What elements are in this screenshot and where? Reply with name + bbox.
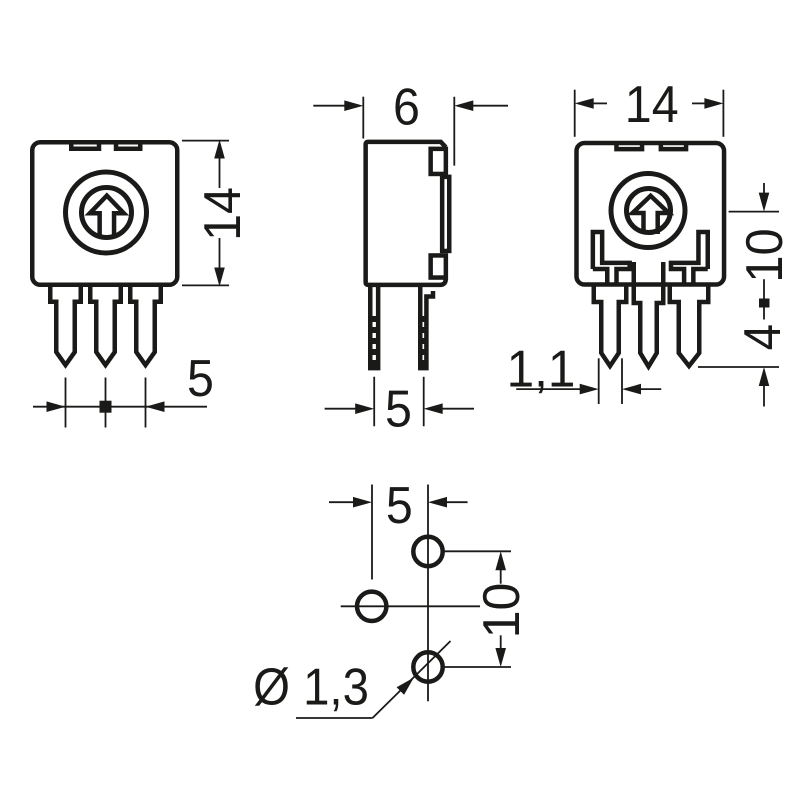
extension line bottom xyxy=(182,284,229,286)
svg-text:4: 4 xyxy=(734,324,791,350)
dimension tail above xyxy=(763,183,765,194)
dimension line left part xyxy=(516,388,581,390)
extension line top xyxy=(182,140,229,142)
dimension tail right xyxy=(692,102,706,104)
dimension line right part xyxy=(639,388,661,390)
pin 2 (front view) xyxy=(90,285,121,365)
arrow down xyxy=(214,268,225,287)
dimension tail left xyxy=(592,102,607,104)
side plate (side view) xyxy=(442,177,449,251)
extension line right xyxy=(453,97,455,166)
square terminator at pin2 xyxy=(100,401,112,413)
dimension line right part xyxy=(473,105,508,107)
top notch right (front view) xyxy=(116,141,140,149)
hole left xyxy=(357,592,386,621)
extension line left xyxy=(574,90,576,137)
rotor inner circle (front view) xyxy=(82,188,132,238)
svg-text:10: 10 xyxy=(736,228,793,282)
top notch left xyxy=(616,142,642,149)
vertical centerline xyxy=(427,485,429,702)
pin rear serrations xyxy=(421,316,426,368)
body front view xyxy=(32,142,177,285)
arrow pointing right xyxy=(580,384,599,395)
dimension line xyxy=(33,406,207,408)
pin 3 (right view) xyxy=(670,285,709,366)
pin rear (side view) xyxy=(420,286,433,368)
dimension line left part xyxy=(313,105,345,107)
arrow left-pointing at pin3 xyxy=(146,401,165,412)
extension line left xyxy=(598,358,600,404)
lower mounting tab (side view) xyxy=(431,255,446,277)
arrow pointing up xyxy=(495,551,506,570)
svg-text:14: 14 xyxy=(625,75,679,133)
leader horizontal segment xyxy=(296,717,373,719)
dimension line segments xyxy=(219,158,221,188)
dimension line left part xyxy=(329,501,355,503)
top notch right xyxy=(661,142,686,149)
horizontal centerline xyxy=(341,605,480,607)
svg-text:6: 6 xyxy=(393,78,420,136)
svg-text:5: 5 xyxy=(386,477,413,535)
arrow up xyxy=(214,140,225,159)
adjustment arrow xyxy=(633,196,669,234)
arrow pointing right xyxy=(704,98,723,109)
arrow pointing left xyxy=(575,98,594,109)
arrow right-pointing at pin1 xyxy=(47,401,66,412)
pin 3 (front view) xyxy=(130,285,161,365)
arrow pointing right xyxy=(355,403,374,414)
svg-text:Ø 1,3: Ø 1,3 xyxy=(253,659,369,716)
pin front serrations xyxy=(372,316,377,368)
hole top right xyxy=(413,537,442,566)
extension line pin1 xyxy=(65,378,67,428)
extension line right pin xyxy=(423,377,425,427)
rotor outer circle xyxy=(611,174,685,248)
svg-text:1,1: 1,1 xyxy=(507,339,576,397)
dimension line left part xyxy=(325,408,357,410)
svg-text:5: 5 xyxy=(187,350,214,408)
arrow pointing right xyxy=(344,100,363,111)
arrow pointing left xyxy=(622,384,641,395)
upper mounting tab (side view) xyxy=(431,149,446,174)
rotor inner circle xyxy=(627,189,671,233)
leader filled arrowhead xyxy=(397,678,414,695)
dimension tail below xyxy=(763,385,765,407)
extension line right xyxy=(621,358,623,404)
arrow pointing left xyxy=(454,100,473,111)
arrow pointing left xyxy=(428,497,447,508)
svg-text:5: 5 xyxy=(385,380,412,438)
dimension line segment xyxy=(763,279,765,298)
arrow pointing right xyxy=(353,497,372,508)
dimension line right part xyxy=(445,501,468,503)
extension line pin3 xyxy=(145,378,147,428)
extension line right xyxy=(722,90,724,137)
dimension line segment bottom xyxy=(500,635,502,650)
leader line through bottom hole xyxy=(373,641,451,718)
contact clip left xyxy=(593,232,630,286)
extension line pin2 xyxy=(105,378,107,428)
extension line top xyxy=(443,550,511,552)
top notch left (front view) xyxy=(71,141,99,149)
body front view right xyxy=(577,143,725,285)
dimension line segment xyxy=(763,308,765,320)
arrow pointing down xyxy=(759,193,770,212)
arrow pointing up xyxy=(759,367,770,386)
pin 2 middle (right view) xyxy=(634,262,664,367)
dimension line segment top xyxy=(500,568,502,584)
arrow pointing left xyxy=(424,403,443,414)
hole bottom right xyxy=(413,652,442,681)
arrow pointing down xyxy=(495,648,506,667)
square terminator xyxy=(759,299,770,308)
pin 1 (right view) xyxy=(594,285,627,366)
svg-text:10: 10 xyxy=(472,583,530,639)
extension line bottom xyxy=(443,666,511,668)
svg-text:14: 14 xyxy=(194,187,252,241)
contact clip right xyxy=(671,232,708,286)
pin 1 (front view) xyxy=(50,285,81,365)
extension line bottom xyxy=(698,366,779,368)
extension line left pin xyxy=(373,377,375,427)
body side view xyxy=(366,142,446,285)
extension line left xyxy=(371,485,373,580)
rotor outer circle (front view) xyxy=(66,172,147,253)
dimension line right part xyxy=(441,408,474,410)
pin front (side view) xyxy=(370,286,378,368)
adjustment arrow (front view) xyxy=(90,196,124,236)
extension line left xyxy=(362,97,364,139)
extension line top xyxy=(729,211,779,213)
